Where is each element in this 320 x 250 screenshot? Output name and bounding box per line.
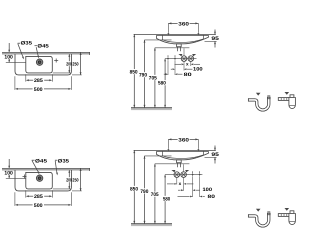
dimension 100 tap distance from wall (8, 159, 10, 168)
svg-text:Ø35: Ø35 (21, 41, 33, 47)
dimension x between connections (175, 63, 182, 65)
svg-text:100: 100 (4, 55, 13, 61)
extension lines below connections (183, 178, 185, 191)
bottle trap inlet pipe with thread lines (278, 98, 289, 101)
dimension 100 tap distance from wall (8, 43, 10, 52)
P-trap outlet nut (267, 96, 271, 98)
supply direction triangles (178, 54, 182, 56)
floor line (131, 108, 172, 110)
dimension 200 bowl depth (53, 188, 71, 190)
basin body inner line (162, 35, 203, 42)
dimension 100 supply (171, 68, 172, 70)
svg-text:100: 100 (203, 187, 213, 193)
bottle trap body (289, 214, 296, 225)
svg-text:285: 285 (34, 194, 43, 200)
dimension 250 basin depth (72, 190, 82, 192)
fixing hole extension lines with arrows (167, 23, 169, 33)
dimension 790 extension line (145, 39, 172, 41)
basin body inner line (162, 151, 203, 158)
riser line above connection (183, 164, 185, 171)
bottle trap body (289, 98, 296, 109)
dimension line 850 rim height (133, 150, 135, 186)
P-trap outlet nut (267, 212, 271, 214)
water supply connection circles with cross (181, 56, 187, 62)
extension line tap centre (6, 61, 26, 63)
dimension line 850 rim height (133, 34, 135, 69)
svg-text:95: 95 (211, 36, 219, 42)
overflow cross mark (23, 176, 27, 178)
svg-text:580: 580 (158, 81, 166, 87)
floor line (131, 224, 172, 226)
dimension 200 bowl depth (53, 72, 71, 74)
svg-text:80: 80 (208, 194, 216, 200)
dimension 80 supply (164, 73, 165, 75)
bottle trap flow arrow (285, 92, 290, 95)
water supply connection circles with cross (181, 172, 187, 178)
washbasin plan view (variant A top) - wall shelf line (2, 51, 90, 53)
basin rim line (elevation) (134, 33, 216, 35)
P-trap siphon pipe (249, 213, 269, 226)
svg-text:100: 100 (4, 171, 13, 177)
supply axis line (165, 58, 196, 60)
P-trap siphon pipe (249, 97, 269, 110)
tap hole (36, 59, 42, 65)
washbasin elevation (variant A top) - dimension 360 (168, 22, 177, 24)
svg-text:Ø35: Ø35 (58, 158, 70, 164)
bottle trap inlet pipe with thread lines (278, 214, 289, 217)
drain flange (177, 160, 182, 163)
basin bowl inner edge (plan) (26, 172, 53, 189)
svg-text:250: 250 (72, 177, 79, 182)
dimension 285 bowl width (25, 190, 27, 197)
svg-text:80: 80 (184, 72, 192, 78)
drain tail pipe (176, 47, 178, 52)
basin outer rim (plan) (15, 54, 71, 75)
basin body outer silhouette (157, 35, 209, 43)
dimension 790 extension line (145, 155, 172, 157)
washbasin elevation (variant B bottom) - dimension 360 (168, 138, 177, 140)
supply direction triangles (185, 170, 189, 172)
dimension 80 supply (178, 196, 190, 198)
dimension 500 basin width (14, 76, 16, 90)
svg-text:250: 250 (72, 61, 79, 66)
svg-text:100: 100 (193, 67, 203, 73)
dimension 95 rim to underside (205, 156, 217, 158)
dimension 95 rim to underside (205, 40, 217, 42)
washbasin plan view (variant B bottom) - wall shelf line (2, 167, 90, 169)
bottle trap top cap (290, 211, 294, 214)
P-trap inlet cap (247, 214, 249, 217)
dimension 705 extension line (155, 47, 190, 49)
svg-text:285: 285 (34, 78, 43, 84)
svg-text:790: 790 (140, 189, 148, 195)
svg-text:705: 705 (149, 75, 157, 81)
tap hole (36, 175, 42, 181)
dimension 285 bowl width (25, 74, 27, 81)
fixing hole extension lines with arrows (167, 139, 169, 149)
drain flange (177, 44, 182, 47)
svg-text:360: 360 (178, 138, 189, 144)
P-trap siphon flow arrow (256, 209, 261, 212)
extension line tap centre (6, 177, 26, 179)
basin body outer silhouette (157, 151, 209, 159)
fixing marks near supply axis (199, 171, 201, 173)
extension lines below connections (183, 62, 185, 71)
fixing marks near supply axis (167, 55, 169, 57)
svg-text:360: 360 (178, 22, 189, 28)
svg-text:500: 500 (34, 203, 43, 209)
svg-text:850: 850 (130, 70, 138, 76)
overflow cross mark (54, 60, 58, 62)
svg-text:Ø45: Ø45 (35, 158, 47, 164)
dimension 250 basin depth (72, 74, 82, 76)
basin rim line (elevation) (134, 149, 216, 151)
svg-text:705: 705 (151, 192, 159, 198)
bottle trap top cap (290, 95, 294, 98)
riser line above connection (183, 48, 185, 55)
svg-text:Ø45: Ø45 (37, 43, 49, 49)
P-trap siphon flow arrow (256, 93, 261, 96)
svg-text:500: 500 (34, 87, 43, 93)
svg-text:850: 850 (130, 186, 138, 192)
dimension 500 basin width (14, 192, 16, 206)
drain tail pipe (176, 163, 178, 168)
dimension 100 supply (178, 189, 181, 191)
svg-text:790: 790 (139, 73, 147, 79)
supply axis line (165, 174, 202, 176)
svg-text:580: 580 (163, 196, 170, 202)
svg-text:95: 95 (211, 152, 219, 158)
basin bowl inner edge (plan) (26, 56, 53, 73)
basin outer rim (plan) (15, 170, 71, 191)
bottle trap flow arrow (285, 208, 290, 211)
dimension x between connections (167, 183, 174, 185)
dimension 705 extension line (155, 163, 190, 165)
P-trap inlet cap (247, 98, 249, 101)
